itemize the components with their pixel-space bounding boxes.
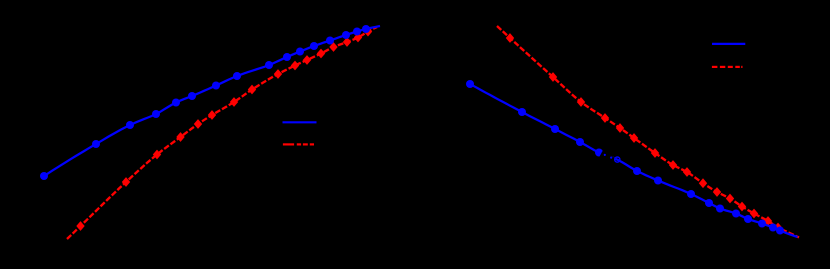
right chart red dashed curve xyxy=(497,26,799,237)
right chart blue solid curve xyxy=(470,84,798,237)
left legend blue solid sample xyxy=(283,121,317,123)
left chart red dashed curve xyxy=(67,27,377,239)
left legend red dashed sample xyxy=(283,143,314,145)
right legend blue solid sample xyxy=(712,43,745,45)
right chart red diamond markers xyxy=(506,33,782,232)
left chart blue circle markers xyxy=(40,25,370,180)
left chart blue solid curve xyxy=(44,26,380,176)
left chart red diamond markers xyxy=(76,27,372,231)
right chart blue circle markers xyxy=(466,80,784,235)
right chart black occlusion over blue line (invisible overlay) xyxy=(601,154,620,162)
right legend red dashed sample xyxy=(712,66,743,68)
